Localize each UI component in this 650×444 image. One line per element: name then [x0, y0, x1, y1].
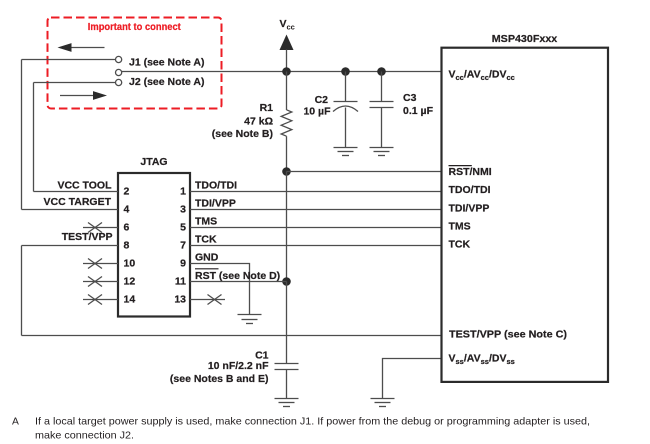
arrow right [60, 91, 107, 100]
svg-text:RST (see Note D): RST (see Note D) [195, 270, 280, 282]
svg-text:11: 11 [175, 276, 186, 288]
overline RST msp [449, 165, 472, 167]
svg-text:2: 2 [124, 186, 130, 198]
svg-text:8: 8 [124, 240, 130, 252]
svg-text:6: 6 [124, 222, 130, 234]
ground under GND pin [238, 315, 262, 324]
no-connect X pin 13 [208, 295, 222, 305]
wire VCC TOOL [34, 191, 119, 193]
ground under C3 [370, 148, 394, 156]
svg-text:10 µF: 10 µF [303, 105, 331, 117]
svg-text:7: 7 [180, 240, 186, 252]
svg-text:GND: GND [195, 252, 219, 264]
svg-text:VCC TARGET: VCC TARGET [44, 196, 112, 208]
wire J2 horizontal [34, 82, 116, 84]
wire stub pin 6 [83, 227, 118, 229]
svg-text:TMS: TMS [449, 221, 471, 233]
svg-text:R1: R1 [260, 102, 274, 114]
svg-text:12: 12 [124, 276, 136, 288]
wire VCC TARGET [22, 209, 119, 211]
junction dot Vcc rail [282, 67, 291, 76]
wire rail below R1 [286, 136, 288, 171]
junction dot C2 [341, 67, 350, 76]
svg-text:Important to connect: Important to connect [88, 21, 181, 33]
junction dot RST/NMI [282, 167, 291, 176]
MSP430 IC box [442, 48, 609, 382]
wire J2 vertical [33, 83, 35, 192]
svg-text:14: 14 [124, 294, 136, 306]
no-connect X pin 6 [88, 223, 102, 233]
svg-text:4: 4 [124, 204, 130, 216]
svg-text:1: 1 [180, 186, 186, 198]
svg-text:0.1 µF: 0.1 µF [403, 105, 434, 117]
svg-text:13: 13 [174, 294, 186, 306]
wire GND [190, 264, 250, 315]
ground under C1 [275, 399, 299, 407]
wire rail above R1 [286, 72, 288, 111]
wire J1 horizontal [22, 59, 116, 61]
svg-text:VCC TOOL: VCC TOOL [57, 180, 112, 192]
ground under C2 [334, 148, 358, 156]
svg-text:C3: C3 [403, 92, 417, 104]
important-to-connect dashed box [48, 18, 222, 109]
wire rail RST segment [286, 172, 288, 282]
capacitor C1 [275, 364, 299, 399]
junction dot C3 [377, 67, 386, 76]
svg-text:TDI/VPP: TDI/VPP [195, 198, 236, 210]
svg-text:JTAG: JTAG [140, 156, 167, 168]
wire stub pin 14 [83, 299, 118, 301]
svg-text:3: 3 [180, 204, 186, 216]
power Vcc arrow symbol [280, 35, 294, 51]
wire stub pin 12 [83, 281, 118, 283]
resistor R1 [281, 110, 292, 136]
svg-text:47 kΩ: 47 kΩ [244, 116, 273, 128]
wire TDI/VPP [190, 209, 442, 211]
node Vcc tap circle [116, 69, 122, 75]
wire J1 vertical [21, 60, 23, 210]
wire RST/NMI to MSP430 [287, 171, 442, 173]
wire TMS [190, 227, 442, 229]
capacitor C3 [370, 72, 394, 148]
svg-text:A: A [12, 417, 19, 428]
wire TEST/VPP bottom to MSP430 [22, 335, 442, 337]
svg-text:If a local target power supply: If a local target power supply is used, … [35, 417, 590, 428]
capacitor C2 [333, 72, 358, 148]
svg-text:MSP430Fxxx: MSP430Fxxx [492, 33, 558, 45]
svg-text:J1 (see Note A): J1 (see Note A) [129, 56, 204, 68]
svg-text:10 nF/2.2 nF: 10 nF/2.2 nF [208, 360, 269, 372]
svg-text:5: 5 [180, 222, 186, 234]
ground under Vss [371, 399, 395, 407]
wire Vcc stem [286, 50, 288, 72]
junction dot RST jtag [282, 277, 291, 286]
svg-text:10: 10 [124, 258, 136, 270]
svg-text:TCK: TCK [449, 239, 471, 251]
svg-text:TDO/TDI: TDO/TDI [195, 180, 237, 192]
no-connect X pin 14 [88, 295, 102, 305]
no-connect X pin 10 [88, 259, 102, 269]
svg-text:RST/NMI: RST/NMI [449, 166, 492, 178]
wire RST [190, 281, 287, 283]
svg-text:TDI/VPP: TDI/VPP [449, 203, 490, 215]
svg-text:(see Note B): (see Note B) [212, 128, 273, 140]
no-connect X pin 12 [88, 277, 102, 287]
JTAG connector box [118, 173, 190, 317]
overline RST jtag [195, 268, 219, 270]
svg-text:(see Notes B and E): (see Notes B and E) [170, 373, 269, 385]
svg-text:TCK: TCK [195, 234, 217, 246]
svg-text:TEST/VPP (see Note C): TEST/VPP (see Note C) [449, 329, 567, 341]
svg-text:J2 (see Note A): J2 (see Note A) [129, 76, 204, 88]
connector J1 [116, 56, 122, 62]
wire TDO/TDI [190, 191, 442, 193]
wire Vss [383, 359, 442, 399]
wire rail to C1 [286, 282, 288, 364]
wire Vcc main horizontal [122, 71, 442, 73]
wire TEST/VPP vertical [21, 246, 23, 336]
wire TEST/VPP left [22, 245, 119, 247]
svg-text:TEST/VPP: TEST/VPP [62, 231, 113, 243]
wire stub pin 13 [190, 299, 225, 301]
svg-text:make connection J2.: make connection J2. [35, 431, 134, 442]
connector J2 [116, 79, 122, 85]
svg-text:9: 9 [180, 258, 186, 270]
wire TCK [190, 245, 442, 247]
wire stub pin 10 [83, 263, 118, 265]
svg-text:TMS: TMS [195, 216, 217, 228]
arrow left [58, 43, 105, 52]
svg-text:TDO/TDI: TDO/TDI [449, 184, 491, 196]
